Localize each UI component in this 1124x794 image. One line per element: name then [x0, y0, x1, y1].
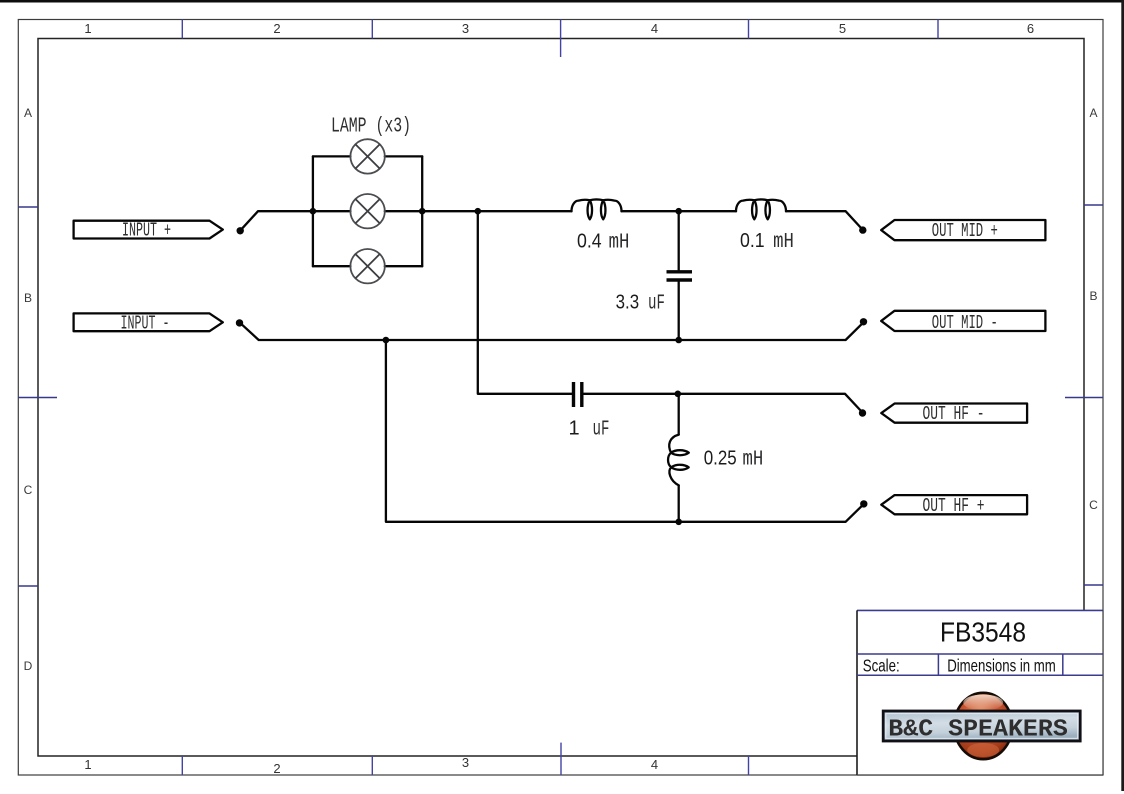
title block box [857, 610, 1103, 775]
node input- terminal dot [236, 319, 243, 326]
lamp LA2 [350, 194, 384, 228]
svg-text:INPUT +: INPUT + [122, 220, 171, 242]
svg-text:LAMP (x3): LAMP (x3) [331, 114, 411, 138]
svg-text:mH: mH [609, 231, 630, 254]
junction C1 top on top bus [675, 208, 682, 215]
node out mid- terminal dot [860, 318, 867, 325]
svg-text:B: B [1089, 289, 1097, 303]
terminal INPUT + arrow [74, 221, 223, 239]
svg-text:uF: uF [648, 292, 665, 315]
svg-text:C: C [1089, 498, 1098, 512]
bottom zone numbers [84, 755, 658, 776]
capacitor C1 3.3 uF vertical wires [678, 211, 680, 340]
terminal OUT MID + arrow [881, 220, 1045, 240]
bottom zone band dividers [182, 743, 748, 775]
terminal OUT HF - arrow [881, 404, 1027, 423]
svg-text:2: 2 [273, 21, 280, 36]
svg-text:2: 2 [273, 761, 280, 776]
svg-text:0.25: 0.25 [704, 448, 737, 470]
svg-text:OUT HF -: OUT HF - [923, 403, 985, 425]
wire lamp top branch stubs [313, 155, 422, 157]
wire top bus lamp to L1 [422, 210, 571, 212]
wire mid- bus tap down [386, 340, 863, 522]
svg-text:5: 5 [839, 21, 846, 36]
wire L2 to out mid+ [786, 211, 862, 229]
svg-text:4: 4 [651, 21, 658, 36]
junction lamp bank left [310, 208, 317, 215]
wire lamp box left vertical [312, 156, 314, 266]
terminal OUT HF + arrow [881, 495, 1027, 514]
node out hf+ terminal dot [860, 500, 867, 507]
svg-text:mH: mH [773, 231, 794, 254]
capacitor C2 1 uF plates [574, 382, 582, 407]
node out hf- terminal dot [859, 409, 866, 416]
wire bottom bus to out mid- [386, 323, 863, 340]
svg-text:3.3: 3.3 [616, 292, 640, 314]
svg-text:1: 1 [84, 21, 91, 36]
node input+ terminal dot [237, 227, 244, 234]
wire input- switch stub [242, 324, 386, 340]
svg-text:OUT MID -: OUT MID - [932, 312, 998, 334]
wire lamp bottom branch stubs [313, 265, 422, 267]
scan edge bar top [0, 0, 1124, 3]
lamp LA3 [350, 249, 384, 283]
inductor L1 0.4 mH [572, 199, 622, 219]
junction lamp bank right [419, 208, 426, 215]
junction HF tap on top bus [475, 208, 482, 215]
svg-text:0.1: 0.1 [740, 230, 765, 252]
svg-text:3: 3 [462, 21, 469, 36]
inductor L2 0.1 mH [736, 199, 786, 219]
lamp LA1 [350, 139, 384, 173]
junction C1 bottom on return bus [675, 337, 682, 344]
inductor L3 0.25 mH vertical [678, 394, 680, 435]
svg-text:6: 6 [1027, 21, 1034, 36]
terminal OUT MID - arrow [881, 311, 1045, 331]
svg-text:OUT MID +: OUT MID + [932, 220, 998, 242]
svg-text:OUT HF +: OUT HF + [923, 495, 985, 517]
left zone band dividers [18, 207, 57, 586]
right zone band dividers [1065, 205, 1103, 585]
svg-text:INPUT -: INPUT - [121, 312, 170, 334]
left zone letters [24, 106, 33, 673]
svg-text:A: A [1089, 106, 1097, 120]
svg-text:C: C [24, 483, 33, 497]
logo ball [954, 693, 1012, 759]
wire tap node down to HF row [478, 211, 572, 394]
svg-text:B: B [24, 291, 32, 305]
terminal INPUT - arrow [74, 313, 223, 331]
svg-text:D: D [24, 659, 33, 673]
svg-text:1: 1 [84, 757, 91, 772]
svg-text:0.4: 0.4 [577, 230, 602, 252]
junction HF return tap on return bus [383, 337, 390, 344]
svg-text:1: 1 [569, 417, 580, 439]
svg-text:B&C SPEAKERS: B&C SPEAKERS [888, 716, 1068, 743]
wire lamp middle branch [313, 210, 422, 212]
svg-text:A: A [24, 106, 32, 120]
svg-text:3: 3 [462, 755, 469, 770]
svg-text:uF: uF [593, 418, 610, 441]
top zone band dividers [182, 20, 938, 58]
svg-text:FB3548: FB3548 [940, 617, 1026, 648]
logo plate [883, 711, 1080, 741]
right zone letters [1089, 106, 1098, 512]
top zone numbers [84, 21, 1034, 36]
node out mid+ terminal dot [859, 226, 866, 233]
svg-text:mH: mH [743, 448, 764, 471]
junction L3 bottom node [675, 519, 682, 526]
wire input+ switch stub [242, 211, 313, 229]
svg-text:Dimensions in mm: Dimensions in mm [947, 656, 1056, 676]
title block row lines [857, 653, 1103, 655]
junction L3 top node [675, 391, 682, 398]
wire L1 to cap node [622, 210, 737, 212]
capacitor C1 3.3 uF plates [667, 272, 693, 280]
capacitor C2 1 uF right wire [583, 394, 862, 412]
svg-text:Scale:: Scale: [863, 656, 900, 676]
svg-text:4: 4 [651, 757, 658, 772]
wire lamp box right vertical [421, 156, 423, 266]
scan edge bar right [1121, 0, 1124, 791]
